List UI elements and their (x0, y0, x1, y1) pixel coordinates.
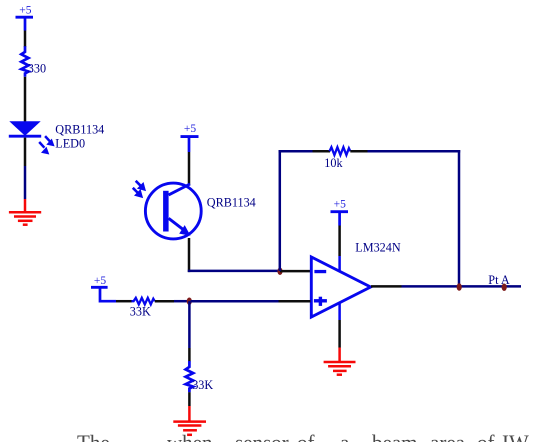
wire (313, 150, 331, 153)
wire (24, 77, 27, 122)
wire feedback right vertical (458, 150, 461, 287)
wire output (371, 285, 402, 288)
wire (24, 138, 27, 166)
svg-text:of: of (297, 431, 315, 442)
wire (279, 300, 311, 303)
power +5 V4 divider (91, 275, 116, 301)
phototransistor emitter arrowhead (179, 225, 190, 236)
wire (191, 300, 279, 303)
wire (116, 300, 132, 303)
ground (9, 199, 41, 225)
wire feedback left vertical (279, 150, 282, 271)
wire (188, 152, 191, 185)
wire (188, 238, 191, 272)
node junction (502, 284, 507, 291)
svg-text:+5: +5 (94, 275, 106, 287)
node junction (277, 268, 282, 275)
wire feedback top (279, 150, 313, 153)
LED light arrow 2 (39, 142, 49, 155)
power +5 V1 top-left (16, 5, 34, 31)
svg-text:The: The (77, 431, 110, 442)
phototransistor emitter line (169, 218, 186, 231)
phototransistor base bar (163, 191, 169, 232)
svg-text:+5: +5 (334, 199, 346, 211)
svg-text:area: area (430, 431, 466, 442)
wire (188, 270, 280, 273)
op-amp minus sign (314, 270, 326, 273)
LED LED0 anode triangle (9, 121, 40, 136)
svg-text:10k: 10k (324, 156, 343, 170)
wire (24, 31, 27, 48)
op-amp V+ pin (338, 256, 341, 271)
caption text cropped at bottom (77, 431, 529, 442)
wire (188, 348, 191, 362)
op-amp plus sign (314, 297, 327, 306)
node junction (457, 283, 462, 290)
svg-text:when: when (167, 431, 213, 442)
ground (324, 348, 356, 375)
wire (155, 300, 174, 303)
svg-text:QRB1134: QRB1134 (207, 196, 256, 210)
op-amp V- pin (338, 303, 341, 321)
svg-text:330: 330 (28, 62, 46, 76)
resistor R1 (21, 46, 28, 77)
wire (24, 166, 27, 199)
LED light arrow 1 (45, 136, 55, 146)
resistor R3 33K (132, 298, 155, 305)
wire (174, 300, 188, 303)
op-amp U1 LM324N triangle (311, 257, 370, 317)
svg-text:a: a (340, 431, 350, 442)
svg-text:sensor: sensor (235, 431, 289, 442)
svg-text:+5: +5 (19, 5, 31, 17)
wire (350, 150, 367, 153)
svg-text:beam: beam (372, 431, 417, 442)
svg-text:Pt A: Pt A (488, 273, 510, 287)
wire (188, 301, 191, 348)
svg-text:of: of (477, 431, 495, 442)
phototransistor collector line (169, 184, 190, 195)
resistor R4 33K (186, 361, 194, 392)
svg-text:LED0: LED0 (55, 137, 85, 151)
power +5 V3 op-amp (331, 199, 349, 226)
wire (338, 320, 341, 348)
wire (338, 226, 341, 257)
resistor R2 10k (330, 147, 351, 155)
svg-text:33K: 33K (192, 378, 213, 392)
svg-text:+5: +5 (184, 123, 196, 135)
svg-text:33K: 33K (130, 305, 151, 319)
LED cathode bar (9, 135, 41, 138)
wire (188, 392, 191, 406)
svg-text:QRB1134: QRB1134 (55, 122, 104, 136)
wire (368, 150, 461, 153)
power +5 V2 phototransistor (181, 123, 199, 152)
light arrow 2 into Q1 (133, 188, 143, 198)
node junction (187, 298, 192, 305)
svg-text:LM324N: LM324N (355, 241, 401, 255)
ground (173, 406, 206, 435)
wire (280, 270, 311, 273)
light arrow 1 into Q1 (136, 181, 146, 191)
phototransistor Q1 circle (145, 183, 201, 239)
wire (402, 285, 522, 288)
svg-text:IW: IW (502, 431, 529, 442)
